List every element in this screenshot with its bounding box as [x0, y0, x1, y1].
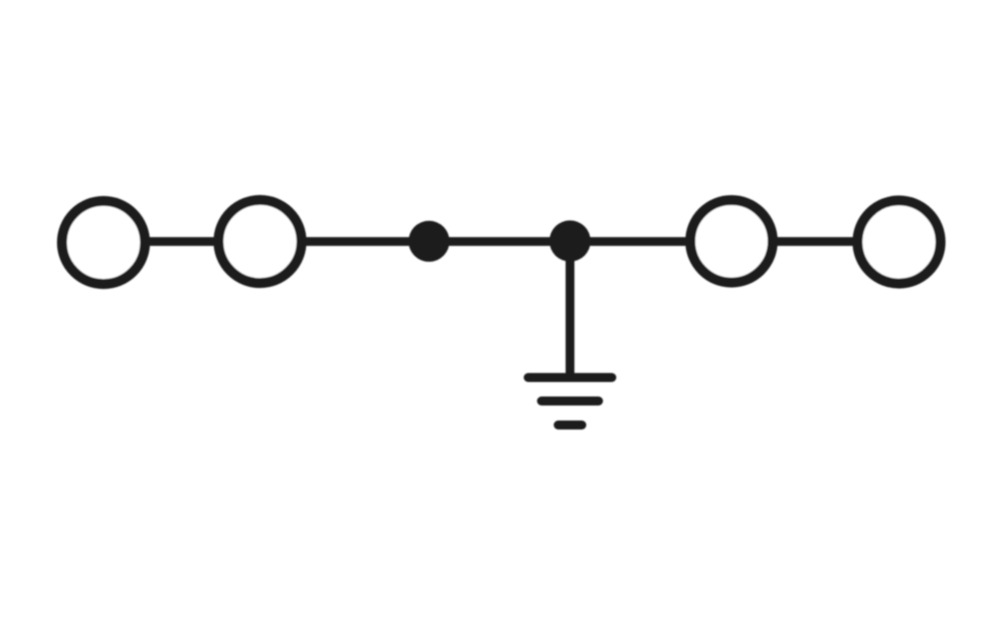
junction node 1 — [409, 221, 450, 262]
junction node 2 (PE tap) — [549, 220, 590, 261]
terminal circle 2 — [219, 200, 302, 283]
ground (PE) symbol — [528, 378, 612, 426]
terminal circle 4 — [858, 201, 941, 284]
terminal circle 3 — [690, 200, 772, 282]
terminal circle 1 — [62, 201, 145, 284]
ground bar 3 (bottom) — [558, 421, 582, 430]
wire vertical to ground — [566, 242, 575, 378]
ground bar 2 (middle) — [542, 397, 599, 406]
ground bar 1 (top) — [528, 373, 612, 382]
wire main horizontal bus — [104, 237, 900, 246]
